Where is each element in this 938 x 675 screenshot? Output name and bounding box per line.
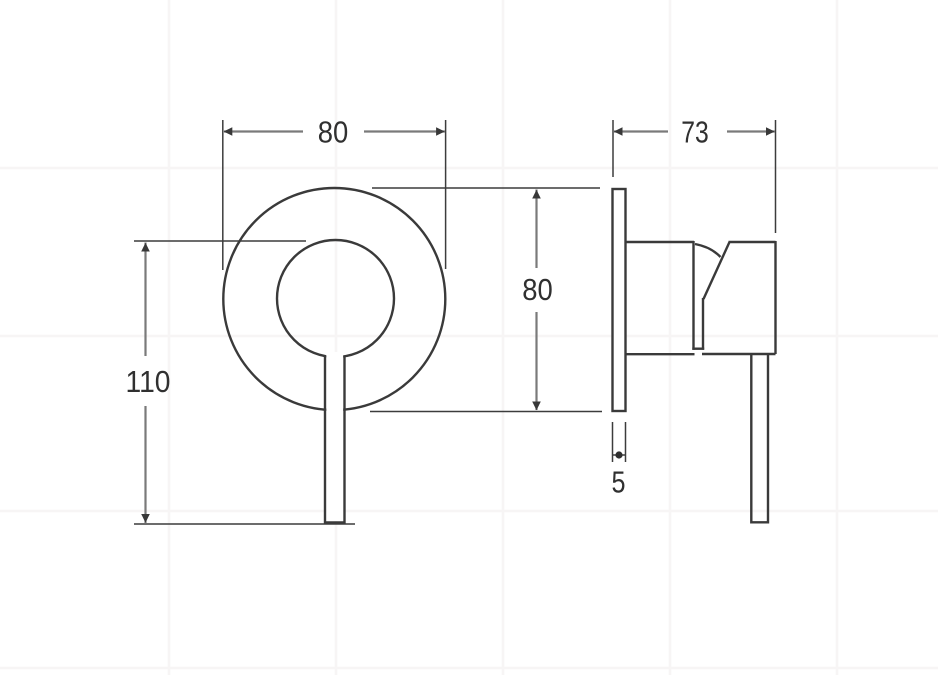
faint grid line horizontal 1 — [0, 167, 938, 170]
svg-text:80: 80 — [522, 272, 553, 307]
faint grid line vertical 3 — [502, 0, 505, 675]
extension line top of side 80 — [372, 187, 600, 189]
faint grid line horizontal 2 — [0, 335, 938, 338]
handle front edge lower (side view) — [702, 298, 704, 350]
svg-text:110: 110 — [126, 364, 171, 399]
dot marker of dimension 5 — [615, 451, 622, 458]
extension line left of 5 — [612, 422, 614, 462]
inner circle (mixer body, front view) — [277, 240, 394, 357]
svg-text:80: 80 — [318, 115, 349, 150]
body top edge (side view) — [626, 241, 695, 243]
handle slant edge (side view) — [704, 242, 730, 299]
svg-text:5: 5 — [612, 465, 626, 500]
faint grid line horizontal 3 — [0, 510, 938, 513]
body bottom edge (side view) — [626, 353, 695, 355]
dimension line 73 left segment — [614, 130, 668, 132]
extension line bottom of 110 — [134, 523, 355, 525]
wall plate (side view) — [613, 189, 626, 411]
dimension line 73 right segment — [727, 130, 775, 132]
handle bottom edge (side view) — [702, 353, 776, 355]
lever handle mask (front view) — [326, 352, 343, 521]
faint grid line vertical 2 — [335, 0, 338, 675]
arrowhead 80 left — [224, 127, 233, 136]
faint grid line vertical 1 — [168, 0, 171, 675]
extension line top of 110 — [134, 240, 306, 242]
dimension line side 80 lower segment — [535, 312, 537, 410]
extension line left of 73 — [612, 120, 614, 177]
dimension line 5 — [613, 454, 625, 456]
body right edge (side view) — [692, 241, 694, 350]
dimension line 110 lower segment — [144, 406, 146, 523]
arrowhead side 80 top — [532, 190, 541, 199]
extension line right of 5 — [625, 422, 627, 462]
extension line left of 80 — [222, 120, 224, 270]
arrowhead 110 bottom — [141, 514, 150, 523]
outer circle (round trim plate, front view) — [223, 188, 445, 410]
arrowhead 110 top — [141, 243, 150, 252]
faint grid line vertical 4 — [669, 0, 672, 675]
faint grid line vertical 5 — [836, 0, 839, 675]
svg-text:73: 73 — [681, 115, 709, 150]
extension line right of 73 — [775, 120, 777, 233]
arrowhead 80 right — [436, 127, 445, 136]
handle back edge (side view) — [774, 241, 776, 354]
dimension line 80 right segment — [364, 130, 445, 132]
arrowhead 73 right — [766, 127, 775, 136]
dimension line 80 left segment — [224, 130, 303, 132]
handle top edge (side view) — [729, 241, 776, 243]
lever handle outline (front view) — [325, 356, 345, 523]
lever rod (side view) — [751, 355, 768, 522]
arrowhead side 80 bottom — [532, 402, 541, 411]
faint grid line horizontal 4 — [0, 667, 938, 670]
extension line right of 80 — [445, 120, 447, 269]
fillet arc between body and handle — [695, 244, 721, 257]
arrowhead 73 left — [614, 127, 623, 136]
dimension line 110 upper segment — [144, 243, 146, 357]
junction bridge line between body and handle — [692, 348, 704, 350]
extension line bottom of side 80 — [370, 411, 602, 413]
dimension line side 80 upper segment — [535, 190, 537, 269]
